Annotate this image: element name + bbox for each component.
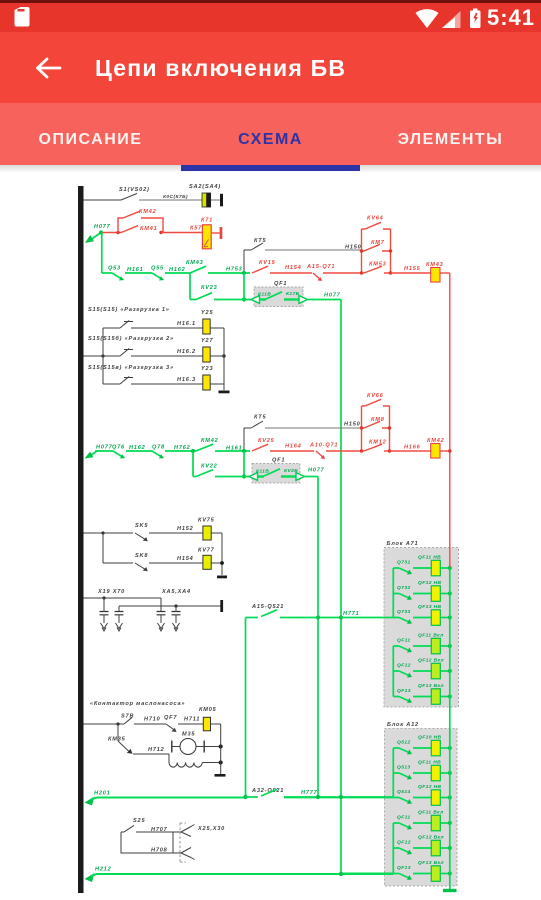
wire SK5 to KV75 [149,532,203,534]
block А12 left rail lower [392,823,394,874]
svg-text:QF11: QF11 [397,815,410,821]
SK right rail [221,533,223,575]
contact Q55 [152,273,163,280]
ground C4 [173,623,180,631]
wire SA2 to terminal [211,199,220,201]
app bar title [95,55,346,82]
svg-text:К71: К71 [201,218,213,224]
svg-text:«Контактор маслонасоса»: «Контактор маслонасоса» [90,701,185,707]
svg-text:QF12: QF12 [397,663,411,669]
ladder2 right rail [389,406,391,451]
contact КV23 [190,293,212,300]
contact КV22 [193,470,213,477]
svg-text:QF13: QF13 [397,688,411,694]
green riser x245 [245,618,247,798]
svg-text:Н150: Н150 [345,245,362,251]
svg-text:К0С(К7Б): К0С(К7Б) [163,194,188,200]
svg-text:КМ41: КМ41 [140,226,158,232]
long green riser x341 [340,300,342,874]
contact block SA2 black element [207,193,211,208]
bus arrow H212 [85,873,95,882]
wire bus to SK5 [84,532,134,534]
wire H201 [91,798,246,800]
vertical KT5 to row1 [243,250,245,272]
svg-text:Н077: Н077 [324,293,341,299]
ground C1 [101,623,108,631]
svg-text:КМ42: КМ42 [201,438,219,444]
svg-text:Н16.2: Н16.2 [177,349,196,355]
wire [165,450,196,452]
svg-text:Н710: Н710 [144,717,161,723]
svg-text:Q76: Q76 [112,445,125,451]
node H077 [99,230,103,234]
svg-text:Y25: Y25 [201,310,213,316]
svg-text:КМ42: КМ42 [427,438,445,444]
svg-text:Н150: Н150 [344,422,361,428]
wire to QF7 [134,723,166,725]
wire bus to S7B [84,723,125,725]
green rail x449.8 down to ground [449,568,451,890]
capacitor C2 [115,612,124,615]
block А71 outline [384,548,459,708]
contact Q78 [152,451,163,458]
wire [126,450,152,452]
svg-text:А15-Q71: А15-Q71 [306,264,335,270]
wire S1 to SA2 [139,199,202,201]
block А71 left rail lower [392,646,394,697]
svg-text:SK5: SK5 [135,523,148,529]
capacitor C3 [157,612,166,615]
wire QF1 exit [306,299,341,301]
svg-text:Н152: Н152 [177,526,194,532]
svg-text:А10-Q71: А10-Q71 [309,443,338,449]
contact КV25 [252,444,268,451]
wire to KM05 coil [178,723,203,725]
wire [270,450,314,452]
wire Y27 to right rail [210,355,224,357]
svg-text:Q731: Q731 [397,560,411,566]
svg-text:Н712: Н712 [148,747,165,753]
wire Y25 to right rail [210,327,224,329]
wire H771 into block A71 [384,617,394,619]
svg-text:Q514: Q514 [397,789,411,795]
contact block SA2 yellow element [202,193,207,207]
svg-text:QF1: QF1 [272,458,285,464]
svg-text:Н166: Н166 [404,445,421,451]
svg-text:Q78: Q78 [152,445,165,451]
wire to node [208,272,250,274]
svg-text:Н777: Н777 [301,790,318,796]
svg-text:ХА5,ХА4: ХА5,ХА4 [161,589,191,595]
contact КТ5 blade [251,243,263,250]
motor right rail [220,724,222,774]
svg-text:КV77: КV77 [198,548,215,554]
svg-text:QF10 НВ: QF10 НВ [418,735,442,741]
svg-text:S15(S15) «Разгрузка 1»: S15(S15) «Разгрузка 1» [88,307,170,313]
wire node to KM41 [101,232,121,234]
svg-text:QF11 НВ: QF11 НВ [418,555,441,561]
svg-text:Н162: Н162 [129,445,146,451]
svg-text:Y27: Y27 [201,338,213,344]
contact QF2 aux [258,475,265,477]
svg-text:Н161: Н161 [127,267,144,273]
motor terminal wires [172,746,221,748]
svg-text:Х25,Х30: Х25,Х30 [197,826,225,832]
wire K71 to end bar [211,232,219,234]
wire to motor [133,753,169,755]
svg-text:Q512: Q512 [397,740,411,746]
drop to C1 [104,598,176,611]
status bar dark top strip [0,0,541,3]
svg-text:М35: М35 [182,732,195,738]
svg-text:КМ42: КМ42 [139,209,157,215]
svg-text:QF12 НВ: QF12 НВ [418,784,442,790]
svg-text:QF12 НВ: QF12 НВ [418,580,442,586]
dashed bracket X25 [180,823,186,862]
node after KM41 [159,231,162,234]
svg-text:Н164: Н164 [285,444,302,450]
wire to QF1 box [214,299,254,301]
contact КМ43 aux [190,266,206,273]
contact QF1 aux [260,298,267,300]
block А12 left rail upper [392,748,394,798]
valve coil Y23 [203,375,210,390]
svg-text:КМ43: КМ43 [426,262,444,268]
wire H077 down to row1 [101,233,103,274]
svg-text:Н154: Н154 [285,265,302,271]
svg-text:Q733: Q733 [397,609,411,615]
wire drop KM42 node [192,451,194,477]
node H077 arrow to bus [91,233,101,240]
relay coil КV75 [203,526,211,540]
svg-text:Н707: Н707 [151,827,168,833]
wire red rail inside block A71 [449,547,451,568]
power bus (left vertical feeder) [78,186,84,893]
wire Y23 to right rail [210,383,224,385]
bus arrow H201 [85,797,95,806]
svg-text:QF13: QF13 [397,865,411,871]
red rail down to block A71 [449,273,451,568]
inductor winding [169,763,202,768]
wire [270,272,312,274]
pin fork 2 [181,848,195,860]
svg-text:S15(S15б) «Разгрузка 2»: S15(S15б) «Разгрузка 2» [88,335,174,342]
wire [165,272,190,274]
svg-text:SA2(SA4): SA2(SA4) [189,184,221,190]
switch S15 row3 [103,377,133,385]
svg-text:Блок А71: Блок А71 [387,541,419,547]
wire lower rail [119,605,221,607]
svg-text:К17Б: К17Б [286,291,300,297]
wire SK8 to KV77 [149,562,203,564]
wire to QF2 box [215,476,252,478]
ground motor [215,774,226,777]
wire to block A12 row3 [284,796,393,799]
svg-text:КМ43: КМ43 [186,260,204,266]
wire to K71 coil [161,232,202,234]
svg-text:Н753: Н753 [226,267,243,273]
wire drop to KV23 branch [189,273,191,300]
green riser x318 [317,477,319,798]
wire KT5 to ladder1 [265,249,362,251]
svg-text:Н077: Н077 [94,224,111,230]
svg-text:Н077: Н077 [96,445,113,451]
pin fork 1 [181,825,195,837]
svg-text:Н16.1: Н16.1 [177,321,196,327]
wire to KM42 coil [390,450,431,452]
connector arrow left (2) [249,473,258,481]
svg-text:КМ53: КМ53 [369,262,387,268]
svg-text:Y23: Y23 [201,366,213,372]
ground C2 [116,623,123,631]
svg-text:Q53: Q53 [108,266,121,272]
wire row2 start [95,450,113,452]
svg-text:QF13 НВ: QF13 НВ [418,604,442,610]
svg-text:Н201: Н201 [94,791,111,797]
svg-text:QF12 Вкл: QF12 Вкл [418,658,444,664]
connector box left/bottom [121,832,181,853]
wifi icon [416,9,439,28]
capacitor C4 [172,612,181,615]
svg-text:Н708: Н708 [151,848,168,854]
wire bus to S1 [84,199,122,201]
svg-text:S15(S15в) «Разгрузка 3»: S15(S15в) «Разгрузка 3» [88,365,174,371]
wire KT5(2) to ladder2 [265,427,362,429]
svg-text:Н161: Н161 [226,446,243,452]
svg-text:Х19 Х70: Х19 Х70 [97,589,125,595]
terminal end bar [220,194,223,207]
wire KV75 to rail [211,532,222,534]
svg-text:QF11 НВ: QF11 НВ [418,760,441,766]
wire KT5 corner [244,249,251,251]
svg-text:SK8: SK8 [135,553,148,559]
svg-text:Q732: Q732 [397,585,411,591]
ground Y block [219,391,230,394]
svg-text:QF11: QF11 [397,638,410,644]
contact КМ42 aux [196,444,213,451]
svg-text:Н155: Н155 [404,266,421,272]
svg-text:QF12 Вкл: QF12 Вкл [418,835,444,841]
svg-text:КV23: КV23 [201,285,218,291]
switch S15 row2 [103,349,133,357]
relay coil К71 [202,225,211,249]
relay coil КМ42 [431,444,440,459]
svg-text:КV15: КV15 [259,260,276,266]
cellular icon [442,11,461,28]
drop to inductor [168,754,170,763]
contact Q76 [113,451,124,458]
contact КМ41 (lower) [121,226,138,233]
svg-text:Н212: Н212 [95,867,112,873]
svg-text:К57: К57 [190,226,202,232]
valve coil Y27 [203,347,210,362]
wire coil to right rail [211,723,221,725]
block А71 left rail upper [392,568,394,618]
contact КМ12 on main [360,449,363,452]
wire to ladder1 [323,272,362,274]
wire coil KM42 to rail [440,450,450,452]
red terminal bar [220,227,223,239]
svg-text:QF1: QF1 [274,281,287,287]
ground SK rail [217,576,227,579]
svg-text:КV66: КV66 [367,393,384,399]
status bar [0,3,541,32]
svg-text:QF7: QF7 [164,715,177,721]
left drop SK rows [102,533,104,563]
wire coil to right rail [440,272,450,274]
svg-text:S7В: S7В [121,714,134,720]
contact КТ5 (2) [244,421,263,428]
breaker aux box QF2 [252,464,300,484]
contact КМ42 branch (upper bypass) [118,218,163,233]
svg-text:QF13 Вкл: QF13 Вкл [418,860,444,866]
junction node [242,271,246,275]
connector arrow right [299,296,308,304]
wire row1 start [102,272,112,274]
block А12 outline [385,729,458,887]
tab bar [0,103,541,165]
svg-text:Q513: Q513 [397,765,411,771]
shadow under tab bar [0,165,541,176]
svg-text:S25: S25 [133,818,145,824]
connector box mid bar [172,832,174,853]
notification icon [15,7,30,27]
wire drop at KT5 node [243,451,245,477]
svg-text:Блок А12: Блок А12 [387,722,419,728]
relay coil КV77 [203,555,211,569]
feed wire bus to Y block [84,355,104,357]
ladder1 left rail [361,229,363,273]
bus arrow row2 [90,451,97,456]
battery icon [470,9,481,29]
Y block right rail [223,328,225,390]
wire to ladder2 [326,450,362,452]
wire to Y23 [131,383,203,385]
wire to SK8 [103,562,133,564]
svg-text:Н711: Н711 [184,717,200,723]
wire to Y27 [131,355,203,357]
svg-text:Н077: Н077 [308,468,325,474]
svg-text:КТ5: КТ5 [254,238,267,244]
wire H707 [136,831,181,833]
svg-text:КV22: КV22 [201,464,218,470]
svg-text:S1(VS02): S1(VS02) [119,187,150,193]
connector arrow left [251,296,260,304]
svg-text:Н762: Н762 [174,445,191,451]
clock [487,5,535,31]
contact КМ7 (middle branch) [362,244,391,251]
wire to Y25 [131,327,203,329]
wire H212 [91,874,393,877]
app bar [0,32,541,103]
svg-text:QF11 Вкл: QF11 Вкл [418,633,444,639]
switch S1 blade [121,194,137,201]
connector arrow right (2) [296,473,305,481]
svg-text:КМ12: КМ12 [369,440,387,446]
capacitor C1 [100,612,109,615]
wire inductor to rail [202,762,221,764]
svg-text:QF13 Вкл: QF13 Вкл [418,683,444,689]
ladder1 right rail [390,229,392,273]
ground C3 [158,623,165,631]
wire to node [215,450,250,452]
ground rail A12 [443,889,457,892]
contact КV64 [362,222,391,229]
svg-text:КV25: КV25 [258,438,275,444]
svg-text:КМ05: КМ05 [199,707,217,713]
breaker aux box QF1 [254,287,303,307]
contactor coil КМ05 [203,717,210,731]
svg-text:QF11 Вкл: QF11 Вкл [418,810,444,816]
svg-text:КМ35: КМ35 [108,737,126,743]
contact КV15 [252,266,268,273]
vertical KT5(2) to row2 [243,428,245,450]
svg-text:КV64: КV64 [367,216,384,222]
svg-text:Н771: Н771 [343,611,360,617]
contact Q53 [112,273,123,280]
switch S15 row1 [103,321,133,329]
svg-text:Н162: Н162 [169,267,186,273]
svg-text:КМ8: КМ8 [371,417,385,423]
wire KV77 to rail [211,562,222,564]
contact КМ8 (middle branch) [362,421,390,428]
svg-text:Н154: Н154 [177,556,194,562]
svg-text:А15-Q521: А15-Q521 [251,604,284,610]
wire [125,272,152,274]
svg-text:КТ5: КТ5 [254,415,267,421]
wire drop at node [243,273,245,300]
wire upper rail [84,597,162,599]
valve coil Y25 [203,319,210,334]
svg-text:Q55: Q55 [151,266,164,272]
svg-text:КМ7: КМ7 [371,240,385,246]
back arrow [38,59,61,77]
contact КМ53 on main [360,271,363,274]
svg-text:КV75: КV75 [198,518,215,524]
blue tab indicator [181,165,360,171]
svg-text:QF12: QF12 [397,840,411,846]
Y block left rail [102,328,104,384]
wire to KM43 coil [391,272,431,274]
terminal end bar (caps) [220,600,223,612]
contact КV66 [362,399,390,406]
wire to block A71 row3 [280,617,394,619]
relay coil КМ43 [431,268,440,283]
ladder2 left rail [361,406,363,451]
wire QF2 exit [303,476,318,478]
svg-text:Н16.3: Н16.3 [177,377,196,383]
